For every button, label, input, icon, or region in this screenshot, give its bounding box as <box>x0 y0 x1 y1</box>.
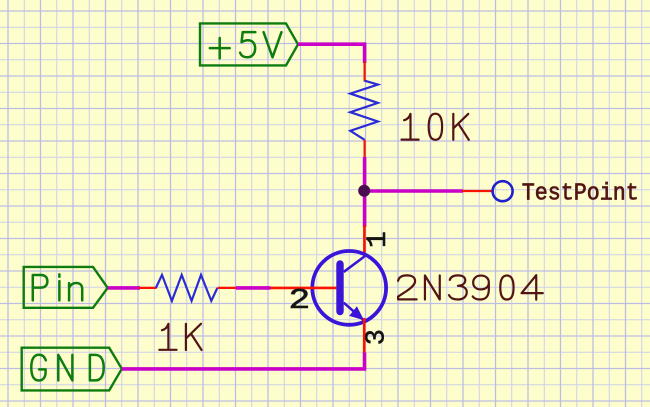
power label text +5V <box>210 32 282 58</box>
wire junction to testpoint <box>365 189 463 193</box>
transistor Q1 emitter stroke <box>344 303 364 320</box>
flag label text GND <box>31 355 103 381</box>
resistor R1 <box>350 81 378 140</box>
wire R1 to junction to transistor <box>363 157 367 227</box>
junction node <box>358 185 370 197</box>
power flag +5V <box>200 23 298 65</box>
emitter arrow <box>349 306 364 320</box>
svg-text:3: 3 <box>363 329 393 345</box>
pin Q1 emitter <box>363 318 366 354</box>
testpoint pad TP1 <box>493 181 513 201</box>
flag label text Pin <box>33 274 82 300</box>
pin Q1 base <box>269 287 336 290</box>
transistor Q1 base bar <box>336 264 343 312</box>
flag Pin <box>24 267 108 308</box>
wire Pin flag to resistor R2 <box>108 286 140 290</box>
wire R2 to transistor base <box>236 286 271 290</box>
value label 2N3904 <box>398 275 543 299</box>
wire +5V to resistor R1 <box>298 44 365 63</box>
resistor R2 <box>156 275 218 301</box>
pin Q1 collector <box>363 225 366 257</box>
pin testpoint TP1 <box>462 190 492 192</box>
flag GND <box>22 348 122 391</box>
svg-text:TestPoint: TestPoint <box>522 180 639 207</box>
value label 1K <box>159 324 201 350</box>
pin R1 bottom <box>364 140 366 159</box>
svg-text:1: 1 <box>363 231 394 248</box>
transistor Q1 collector stroke <box>344 257 365 272</box>
pin R2 left <box>139 287 157 289</box>
value label 10K <box>402 114 469 140</box>
transistor Q1 body <box>312 251 386 325</box>
wire GND to emitter <box>122 353 365 369</box>
svg-text:2: 2 <box>288 284 310 317</box>
pin R2 right <box>218 287 238 289</box>
pin R1 top <box>364 62 366 82</box>
